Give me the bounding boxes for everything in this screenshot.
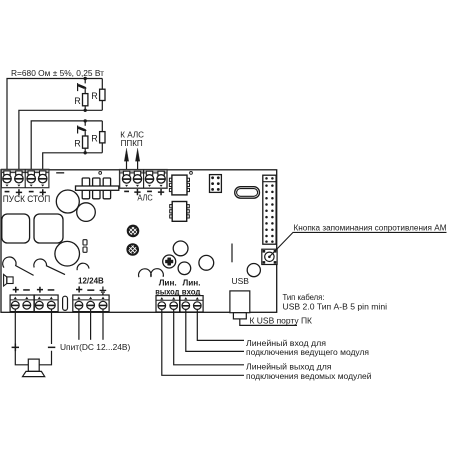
svg-text:ППКП: ППКП	[121, 138, 143, 148]
svg-text:R: R	[91, 133, 98, 143]
crystal ZQ1	[235, 187, 260, 199]
node top of circuit 1	[84, 77, 87, 80]
silkscreen bar	[56, 172, 64, 174]
node bottom of circuit 1	[84, 109, 87, 112]
svg-text:К USB порту ПК: К USB порту ПК	[250, 316, 313, 326]
silkscreen hook 1	[3, 257, 34, 275]
jumper footprint XP1	[76, 178, 119, 199]
sounder BF1 (hatched)	[125, 220, 141, 248]
ground symbol	[100, 287, 107, 294]
jumper pads	[83, 240, 87, 245]
silkscreen bumps	[139, 269, 152, 277]
svg-text:USB: USB	[232, 276, 250, 286]
capacitor C2	[77, 203, 96, 222]
svg-text:USB 2.0 Тип A-B 5 pin mini: USB 2.0 Тип A-B 5 pin mini	[283, 302, 388, 311]
resistor R4 (parallel branch circuit 2)	[101, 121, 103, 153]
svg-text:R=680 Ом ± 5%, 0,25 Вт: R=680 Ом ± 5%, 0,25 Вт	[11, 68, 104, 78]
polarity marks ПУСК/СТОП	[5, 189, 46, 195]
svg-text:Кнопка запоминания сопротивлен: Кнопка запоминания сопротивления АМ	[294, 223, 447, 232]
wire 12/24 +	[78, 309, 80, 340]
capacitor C5	[178, 262, 191, 275]
terminal block 12/24В	[73, 295, 109, 312]
polarity marks speaker out	[13, 287, 55, 293]
silkscreen arc 3	[77, 263, 89, 270]
svg-text:Лин.: Лин.	[159, 278, 177, 287]
connector XS1 (6 pin)	[210, 175, 222, 193]
board outline	[1, 170, 277, 312]
wire speaker +	[15, 309, 28, 365]
callout line button	[269, 232, 446, 256]
svg-text:Лин.: Лин.	[183, 278, 201, 287]
capacitor C3	[55, 241, 80, 266]
svg-text:Линейный выход для: Линейный выход для	[246, 363, 332, 372]
speaker silkscreen icon	[4, 274, 14, 286]
relay K1	[2, 214, 30, 243]
wire arrow to АЛС screw1	[124, 148, 128, 175]
capacitor C1	[56, 190, 79, 213]
wire лин вход 1	[186, 309, 244, 351]
node bottom of circuit 2	[84, 151, 87, 154]
svg-text:R: R	[74, 96, 81, 106]
capacitor C7	[247, 264, 260, 277]
svg-text:Тип кабеля:: Тип кабеля:	[283, 293, 325, 302]
svg-text:R: R	[74, 138, 81, 148]
polarity marks 12/24В	[76, 286, 94, 292]
mounting screw	[163, 255, 176, 268]
wire arrow to АЛС screw2	[135, 148, 139, 175]
wire 12/24 -	[90, 309, 92, 340]
wire ПУСК - (screw2 up, bottom rail of circuit 1)	[19, 110, 102, 175]
resistor R1	[83, 94, 88, 106]
pin header XP2	[263, 175, 276, 244]
push-button SB2	[78, 121, 86, 136]
resistor R2 (parallel branch circuit 1)	[101, 79, 103, 111]
IC DD2	[170, 205, 190, 218]
silkscreen line USB	[231, 244, 233, 263]
terminal block speaker out	[10, 295, 58, 312]
wire to USB port	[240, 319, 297, 326]
terminal block АЛС	[120, 170, 167, 189]
IC DD1	[169, 178, 189, 191]
wire 12/24 gnd	[102, 309, 104, 340]
USB connector X1	[230, 291, 250, 313]
spacer pad	[63, 296, 68, 310]
capacitor C4	[173, 241, 188, 256]
wire speaker -	[39, 309, 51, 365]
wire ПУСК + (screw1 up, top rail of circuit 1)	[7, 79, 102, 176]
svg-text:ПУСК СТОП: ПУСК СТОП	[3, 193, 50, 204]
svg-text:подключения ведомых модулей: подключения ведомых модулей	[246, 372, 372, 381]
capacitor C6	[199, 255, 214, 270]
svg-text:подключения ведущего модуля: подключения ведущего модуля	[246, 348, 369, 357]
svg-text:Линейный вход для: Линейный вход для	[246, 339, 326, 348]
fiducial circle B	[190, 172, 193, 175]
svg-text:R: R	[91, 91, 98, 101]
wire лин выход 1	[162, 309, 244, 375]
resistor R3	[83, 136, 88, 148]
node top of circuit 2	[84, 119, 87, 122]
fiducial circle A	[99, 172, 102, 175]
silkscreen hook 2	[34, 259, 65, 275]
svg-text:АЛС: АЛС	[137, 193, 152, 202]
terminal block Лин	[156, 296, 203, 312]
polarity marks АЛС	[124, 189, 164, 195]
memory button SB3	[262, 249, 277, 264]
wire лин вход 2	[197, 309, 244, 340]
wire СТОП + (screw3 up, top rail of circuit 2)	[31, 121, 102, 175]
sounder BF2 (hatched)	[125, 239, 141, 267]
svg-text:Uпит(DC 12...24В): Uпит(DC 12...24В)	[60, 342, 131, 352]
push-button SB1	[78, 79, 86, 94]
relay K2	[34, 214, 63, 243]
wire СТОП - (screw4 up, bottom rail of circuit 2)	[43, 153, 103, 175]
svg-text:12/24В: 12/24В	[78, 276, 104, 285]
speaker BA1	[28, 359, 39, 371]
terminal block ПУСК/СТОП	[1, 169, 49, 187]
wire лин выход 2	[174, 309, 244, 365]
